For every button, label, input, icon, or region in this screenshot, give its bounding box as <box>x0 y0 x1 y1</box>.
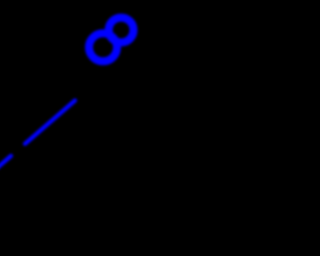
node B (small ring) <box>109 18 134 43</box>
node A (large ring) <box>89 33 117 61</box>
wire (dashed line segment A, lower-left) <box>0 156 11 171</box>
wire (dashed line segment B) <box>25 101 75 144</box>
